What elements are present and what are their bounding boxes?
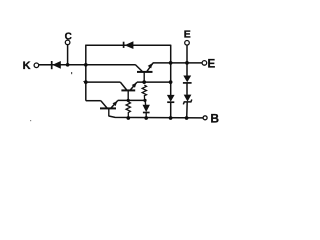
svg-text:E: E	[184, 28, 191, 40]
svg-text:K: K	[23, 60, 31, 72]
svg-text:E: E	[208, 58, 216, 70]
svg-text:B: B	[210, 111, 219, 125]
svg-text:C: C	[65, 32, 72, 43]
